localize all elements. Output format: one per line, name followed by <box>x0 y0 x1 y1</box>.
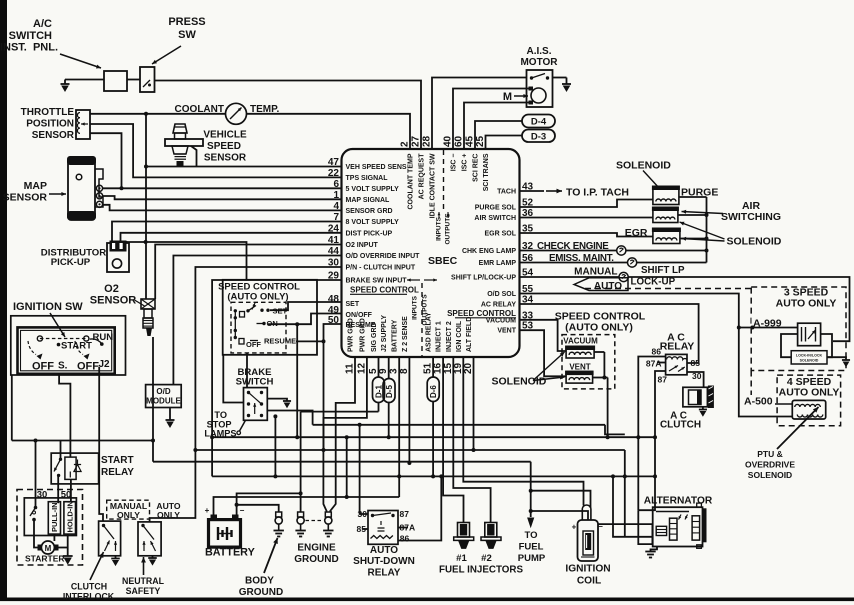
svg-text:DIST PICK-UP: DIST PICK-UP <box>346 230 393 237</box>
junction node B <box>120 186 124 190</box>
pin 47 VEH SPEED SENS <box>328 157 407 171</box>
SBEC lower INPUTS/OUTPUTS labels and arrow <box>407 278 437 325</box>
label COOLANT ... TEMP. <box>175 104 280 115</box>
wire: ASD 86 to bus <box>398 476 441 540</box>
wire: pin 25 SCI TRANS to D-3 <box>486 136 523 150</box>
starter motor M circle <box>38 541 59 554</box>
svg-text:OFF: OFF <box>246 340 261 349</box>
ground G4 (3-speed) <box>842 360 850 367</box>
wire: brake lamp branch down <box>273 414 277 476</box>
svg-text:SPEED: SPEED <box>207 141 241 152</box>
arrow TO I.P. TACH <box>546 189 562 194</box>
A/C relay K1 <box>666 354 687 374</box>
svg-text:A.I.S.: A.I.S. <box>526 46 551 57</box>
pin 3 BATTERY (bottom) <box>389 319 400 374</box>
wire: pin 45 SCI REC to D-4 <box>475 121 522 149</box>
pin 48 SET <box>328 294 360 308</box>
label BRAKE SWITCH <box>236 367 274 388</box>
lock-in/lock solenoid box <box>791 351 827 364</box>
svg-text:87: 87 <box>400 509 410 519</box>
wire: brake switch left to speed control box <box>223 355 243 403</box>
svg-text:ALT FIELD: ALT FIELD <box>466 317 473 352</box>
wire: vertical sensor-ground trunk <box>145 114 147 299</box>
wire: speed control OFF to brake switch <box>246 353 248 388</box>
svg-text:45: 45 <box>465 135 476 147</box>
svg-text:22: 22 <box>328 168 340 179</box>
leader arrow to A/C switch <box>60 54 101 69</box>
coolant temp sensor RT1 <box>226 103 247 124</box>
svg-text:STARTER: STARTER <box>25 554 65 564</box>
start relay K2 <box>51 453 98 484</box>
label VEHICLE SPEED SENSOR <box>203 130 247 164</box>
wire: A.I.S. switch to ground <box>553 77 567 79</box>
pin 53 VENT <box>497 321 533 335</box>
svg-text:48: 48 <box>328 294 340 305</box>
ground G11 (engine left) <box>295 531 305 537</box>
svg-text:OVERDRIVE: OVERDRIVE <box>745 460 795 470</box>
ignition coil T1 <box>578 505 599 561</box>
connector D-5 <box>383 379 395 403</box>
svg-text:41: 41 <box>328 235 340 246</box>
svg-text:8 VOLT SUPPLY: 8 VOLT SUPPLY <box>346 219 400 226</box>
wire: press switch to pin 27 (AC REQUEST) <box>155 81 422 150</box>
svg-text:28: 28 <box>422 135 433 147</box>
wire: pin 15 INJECT2 to injector 2 <box>453 357 490 523</box>
svg-text:#2: #2 <box>481 553 492 564</box>
svg-text:1: 1 <box>333 190 339 201</box>
svg-text:4: 4 <box>333 201 339 212</box>
pin 60 ISC + (top) <box>454 135 469 171</box>
wire: pin 9 J2 SUPPLY to bus <box>387 357 391 439</box>
svg-text:A/C: A/C <box>33 18 52 30</box>
svg-text:START: START <box>101 455 134 466</box>
pin 27 AC REQUEST (top) <box>411 135 426 199</box>
wire: start relay switch to pull-in coil <box>57 475 59 503</box>
wire: battery junction branch <box>345 437 349 499</box>
fuel injector 1 <box>454 523 474 549</box>
svg-text:LOCK-UP: LOCK-UP <box>631 277 676 288</box>
svg-text:60: 60 <box>454 135 465 147</box>
wire: pull-in to motor <box>53 534 55 541</box>
wire: branch to coil negative <box>529 489 591 508</box>
leader arrow to MAP sensor <box>49 192 66 196</box>
label AUTO ONLY <box>156 501 181 520</box>
wire: pin 28 to A.I.S. idle contact switch <box>432 78 527 150</box>
svg-text:COOLANT TEMP: COOLANT TEMP <box>408 153 415 209</box>
svg-text:AC RELAY: AC RELAY <box>481 302 516 309</box>
svg-text:PWR GRD: PWR GRD <box>359 318 366 352</box>
pin 51 ASD RELAY (bottom) <box>423 312 434 374</box>
wire: ON to pin 49 <box>268 314 342 325</box>
svg-text:SWITCH: SWITCH <box>9 30 52 42</box>
ground G1 (A/C switch line) <box>61 80 70 93</box>
junction dots solenoid rail <box>705 213 709 253</box>
svg-text:AUTO ONLY: AUTO ONLY <box>779 387 840 399</box>
svg-text:O/D: O/D <box>156 387 170 396</box>
wire: MAP bottom pin to pin 4 SENSOR GRD <box>103 205 342 211</box>
wire: pin 12 PWR GRD to engine ground <box>323 357 367 512</box>
purge solenoid L1 <box>652 186 680 205</box>
svg-text:27: 27 <box>411 135 422 147</box>
svg-text:20: 20 <box>463 362 474 374</box>
svg-text:SENSOR: SENSOR <box>32 130 75 141</box>
svg-text:FUEL: FUEL <box>519 542 544 553</box>
leader arrow to ignition switch <box>50 313 65 337</box>
svg-text:VEH SPEED SENS: VEH SPEED SENS <box>346 164 407 171</box>
svg-text:PRESS: PRESS <box>168 16 205 28</box>
wire: feed bus y=440.5 <box>12 439 155 443</box>
svg-text:THROTTLE: THROTTLE <box>21 107 75 118</box>
wire: lock solenoid left bracket <box>781 334 798 357</box>
SBEC top INPUTS/OUTPUTS rotated labels <box>436 212 452 245</box>
label PRESS SW <box>168 16 205 41</box>
svg-text:SOLENOID: SOLENOID <box>800 359 819 363</box>
svg-text:RESUME: RESUME <box>264 336 296 345</box>
label TO FUEL PUMP <box>518 530 546 564</box>
leader arrow to press switch <box>152 46 181 64</box>
label START RELAY <box>101 455 134 478</box>
wire: pin 19 IGN COIL to ignition coil <box>463 357 583 506</box>
A.I.S. motor assembly U2 <box>527 70 553 107</box>
svg-text:CHK ENG LAMP: CHK ENG LAMP <box>462 248 516 255</box>
svg-text:BATTERY: BATTERY <box>205 547 256 559</box>
pin 1 MAP SIGNAL <box>333 190 390 204</box>
pin 43 TACH <box>497 182 533 196</box>
connector D-4 <box>522 115 555 128</box>
pin 12 PWR GRD (bottom) <box>356 318 367 374</box>
wire: relay 30 to A/C clutch <box>687 372 704 387</box>
wire: pin 29 BRAKE SW INPUT run <box>210 280 341 476</box>
bus wire: y=437.2 <box>212 435 655 439</box>
label AUTO SHUT-DOWN RELAY <box>353 545 415 579</box>
svg-text:ASD RELAY: ASD RELAY <box>426 312 433 352</box>
leader to O2 sensor <box>135 300 145 306</box>
svg-text:25: 25 <box>475 135 486 147</box>
label ENGINE GROUND <box>294 543 338 566</box>
wire: start relay coil to hold-in coil <box>70 479 72 501</box>
leader: air switching label to solenoid <box>682 210 724 214</box>
wire: pin 20 ALT FIELD to bus <box>472 357 476 452</box>
label O2 SENSOR <box>90 283 137 307</box>
wire: speed control down to bus <box>295 322 299 437</box>
wire: MAP middle pin to pin 1 MAP SIGNAL <box>103 196 342 199</box>
wire: pin 33 VACUUM to vacuum solenoid <box>520 320 567 351</box>
wire: TPS top pin / coolant node <box>90 113 226 115</box>
wire: SET to pin 48 <box>270 302 342 310</box>
svg-text:GROUND: GROUND <box>239 587 283 598</box>
pin 7 8 VOLT SUPPLY <box>333 212 399 226</box>
wire: relay 86 feed <box>638 357 665 511</box>
dashed grouping line (auto only) <box>585 288 751 290</box>
svg-text:SCI REC: SCI REC <box>473 154 480 182</box>
svg-text:SENSOR: SENSOR <box>204 153 247 164</box>
svg-text:40: 40 <box>443 135 454 147</box>
pin 24 DIST PICK-UP <box>328 223 393 237</box>
svg-text:INJECT 1: INJECT 1 <box>436 321 443 352</box>
svg-text:85: 85 <box>691 358 701 368</box>
pin 22 TPS SIGNAL <box>328 168 388 182</box>
pin 4 SENSOR GRD <box>333 201 392 215</box>
svg-text:J2 SUPPLY: J2 SUPPLY <box>381 315 388 352</box>
ground G12 (engine right) <box>323 531 333 537</box>
pin 20 ALT FIELD (bottom) <box>463 317 474 374</box>
svg-text:HOLD-IN: HOLD-IN <box>66 501 75 532</box>
svg-text:−: − <box>240 506 245 515</box>
wire: TPS middle pin to pin 22 TPS SIGNAL <box>90 124 342 177</box>
svg-text:9: 9 <box>378 368 389 374</box>
wire: pin 56 EMR LAMP <box>520 262 707 264</box>
wire: O/D module to ground <box>169 408 171 421</box>
brake switch S3 <box>244 388 268 421</box>
speed control switch contacts <box>234 303 270 344</box>
PTU / overdrive solenoid L7 <box>792 400 825 419</box>
svg-text:50: 50 <box>61 490 72 501</box>
dashed box speed control solenoids <box>562 335 615 389</box>
wire: pin 55 O/D SOL to PTU solenoid <box>520 294 793 417</box>
svg-text:PURGE SOL: PURGE SOL <box>475 205 517 212</box>
label A.I.S. MOTOR <box>520 46 558 68</box>
emission maintenance lamp DS2 <box>628 258 637 267</box>
svg-text:AIR SWITCH: AIR SWITCH <box>474 215 516 222</box>
svg-text:87: 87 <box>658 375 668 385</box>
svg-text:#1: #1 <box>456 553 467 564</box>
wire: pin 34 AC RELAY to relay pin 85 <box>520 304 699 363</box>
speed control servo box (solid) <box>223 280 317 355</box>
wire: feed to 3-speed governor solenoid <box>737 326 798 330</box>
svg-text:VACUUM: VACUUM <box>486 317 516 324</box>
starter solenoid/motor M1 <box>24 498 76 536</box>
svg-text:MAP: MAP <box>24 180 47 192</box>
pin 45 SCI REC (top) <box>465 135 480 181</box>
label MAP SENSOR <box>3 180 48 204</box>
svg-text:BODY: BODY <box>245 576 274 587</box>
svg-text:ENGINE: ENGINE <box>297 543 336 554</box>
svg-text:SBEC: SBEC <box>428 255 458 267</box>
wire: MAP top pin to pin 6 (5 VOLT SUPPLY) <box>103 187 342 189</box>
auto shut-down relay K3 <box>368 511 398 545</box>
label A C CLUTCH <box>660 411 701 431</box>
svg-text:S.: S. <box>58 361 68 372</box>
svg-text:SENSOR GRD: SENSOR GRD <box>346 208 393 215</box>
label DISTRIBUTOR PICK-UP <box>41 248 106 268</box>
wire: pin 36 AIR SWITCH to solenoid <box>520 217 653 219</box>
pin 55 O/D SOL <box>487 284 533 298</box>
svg-text:INST. PNL.: INST. PNL. <box>0 42 58 54</box>
svg-text:PULL-IN: PULL-IN <box>50 502 59 532</box>
junction node C <box>144 165 148 169</box>
dashed box MANUAL ONLY <box>107 500 150 519</box>
shift/lock-up lamp DS3 <box>619 272 628 281</box>
wire: brake switch to stop lamps <box>237 420 246 434</box>
wire: pin 11 PWR GRD to engine ground <box>330 357 355 512</box>
connector D-3 <box>522 130 555 143</box>
svg-text:SOLENOID: SOLENOID <box>492 376 547 388</box>
throttle position sensor R1 <box>76 110 90 139</box>
svg-text:O2: O2 <box>104 283 119 295</box>
wire: pin 40 ISC- to motor <box>453 89 529 150</box>
pin 44 O/D OVERRIDE INPUT <box>328 246 420 260</box>
svg-text:7: 7 <box>333 212 339 223</box>
pin 11 PWR GRD (bottom) <box>345 318 356 374</box>
wire: sensor row to pin 47 VEH SPEED SENS <box>146 166 342 168</box>
svg-text:INJECT 2: INJECT 2 <box>446 321 453 352</box>
svg-text:PWR GRD: PWR GRD <box>348 318 355 352</box>
label PTU & OVERDRIVE SOLENOID <box>745 449 795 480</box>
label A-999 <box>752 317 782 330</box>
svg-text:MAP SIGNAL: MAP SIGNAL <box>346 197 391 204</box>
pin 2 COOLANT TEMP (top) <box>400 141 415 210</box>
svg-text:MANUAL: MANUAL <box>574 267 617 278</box>
svg-text:VACUUM: VACUUM <box>563 337 598 346</box>
label SPEED CONTROL (AUTO ONLY) left <box>218 282 300 303</box>
svg-text:SET: SET <box>346 301 360 308</box>
wire: pin 3 BATTERY down <box>397 357 401 497</box>
wire: alternator ground stub <box>651 547 658 552</box>
svg-text:INPUTS: INPUTS <box>436 216 443 241</box>
dashed box STARTER <box>17 490 83 566</box>
wire: ignition J2 terminal to clutch interlock <box>99 367 103 521</box>
bus wire: y=424.8 <box>313 423 625 435</box>
wire: coil negative side run <box>598 524 652 544</box>
svg-text:RELAY: RELAY <box>660 341 695 353</box>
pin 56 EMR LAMP <box>479 253 534 267</box>
wire: pin 8 Z2 SENSE to bus <box>407 357 411 465</box>
svg-text:+: + <box>572 523 577 532</box>
svg-text:TACH: TACH <box>497 189 516 196</box>
label TO STOP LAMPS <box>204 410 236 439</box>
wire: pin 51 ASD RELAY to bus <box>431 357 435 478</box>
wire: A/C switch to press switch <box>127 79 140 81</box>
label 4 SPEED AUTO ONLY <box>779 376 840 399</box>
pin 5 SIG GRD (bottom) <box>368 322 379 374</box>
svg-text:24: 24 <box>328 223 340 234</box>
svg-text:SOLENOID: SOLENOID <box>616 160 671 172</box>
O2 sensor U6 <box>141 299 155 336</box>
pin 25 SCI TRANS (top) <box>475 135 490 191</box>
pin 29 BRAKE SW INPUT <box>328 271 407 285</box>
svg-text:5 VOLT SUPPLY: 5 VOLT SUPPLY <box>346 186 400 193</box>
svg-text:ONLY: ONLY <box>117 510 140 520</box>
svg-text:PICK-UP: PICK-UP <box>51 257 91 268</box>
wire: pin 32 CHK ENG LAMP <box>520 250 707 252</box>
svg-text:(AUTO ONLY): (AUTO ONLY) <box>565 322 633 334</box>
wire: pin 44 O/D OVERRIDE to module <box>173 256 341 385</box>
wire: battery negative to body ground <box>235 491 303 514</box>
pin 36 AIR SWITCH <box>474 208 533 222</box>
pin 8 Z 2 SENSE (bottom) <box>399 316 410 374</box>
svg-text:SAFETY: SAFETY <box>126 586 161 596</box>
dashed box 4 SPEED AUTO ONLY <box>777 375 841 426</box>
leader: solenoid label to EGR solenoid <box>682 237 725 241</box>
svg-text:D-4: D-4 <box>531 117 547 128</box>
svg-text:TO: TO <box>524 530 537 541</box>
ground G7 (starter) <box>63 556 73 565</box>
wire: coolant to pin 2 COOLANT TEMP <box>247 114 411 149</box>
pin 19 IGN COIL (bottom) <box>453 320 464 374</box>
air switching solenoid L2 <box>652 207 679 223</box>
A/C switch S1 <box>104 71 127 91</box>
svg-text:GROUND: GROUND <box>294 554 338 565</box>
label IGNITION COIL <box>565 564 610 587</box>
svg-text:12: 12 <box>356 362 367 374</box>
svg-text:RELAY: RELAY <box>368 568 401 579</box>
svg-text:ISC +: ISC + <box>462 154 469 172</box>
svg-text:POSITION: POSITION <box>26 119 74 130</box>
svg-text:NEUTRAL: NEUTRAL <box>122 576 165 586</box>
svg-text:6: 6 <box>333 179 339 190</box>
neutral safety switch S6 <box>138 522 161 556</box>
ground G8 (clutch interlock) <box>111 556 120 566</box>
fuel injector 2 <box>481 523 501 549</box>
label A/C SWITCH INST. PNL. <box>0 18 58 54</box>
pin 34 AC RELAY <box>481 295 534 309</box>
leader: clutch interlock label to switch <box>90 552 104 580</box>
wire: pin 52 PURGE SOL to solenoid <box>520 200 653 208</box>
wire: pin 53 VENT to vent solenoid <box>520 330 567 376</box>
svg-text:TO I.P. TACH: TO I.P. TACH <box>566 187 629 199</box>
check engine lamp DS1 <box>617 246 626 255</box>
connector D-1 <box>373 377 385 403</box>
pin 9 J2 SUPPLY (bottom) <box>378 315 389 374</box>
leader: solenoid label to vacuum solenoid <box>533 352 565 381</box>
O/D module U7 <box>146 385 182 408</box>
svg-text:M: M <box>503 91 512 103</box>
scan border bar left <box>0 0 7 598</box>
junction node A <box>144 112 148 116</box>
wire: pin 43 TACH stub <box>520 190 545 192</box>
svg-text:TPS SIGNAL: TPS SIGNAL <box>346 175 389 182</box>
svg-text:D-5: D-5 <box>385 385 394 398</box>
press switch S2 <box>140 67 155 92</box>
svg-text:+: + <box>205 506 210 515</box>
label SPEED CONTROL (left header) <box>350 286 419 295</box>
wire: RESUME to pin 50 <box>296 324 342 343</box>
svg-text:INTERLOCK: INTERLOCK <box>63 592 115 602</box>
svg-text:IGN COIL: IGN COIL <box>456 320 463 352</box>
label A C RELAY <box>660 332 695 353</box>
pin 49 ON/OFF <box>328 305 373 319</box>
svg-text:ISC −: ISC − <box>451 154 458 172</box>
battery BT1 <box>209 515 241 548</box>
svg-text:CLUTCH: CLUTCH <box>71 582 107 592</box>
leader: solenoid label to air solenoid <box>680 222 725 239</box>
pin 40 ISC &#8722; (top) <box>443 135 458 171</box>
dashed line below 3-speed box <box>750 371 752 407</box>
vehicle speed sensor U3 <box>165 124 203 166</box>
svg-text:OFF: OFF <box>77 361 99 373</box>
svg-text:IDLE CONTACT SW: IDLE CONTACT SW <box>430 153 437 218</box>
bus wire: y=476.4 <box>212 474 655 478</box>
svg-text:2: 2 <box>400 141 411 147</box>
pin 15 INJECT 2 (bottom) <box>443 321 454 374</box>
svg-text:P/N - CLUTCH INPUT: P/N - CLUTCH INPUT <box>346 265 416 272</box>
wire: pin 41 O2 INPUT to O2 sensor <box>155 245 341 300</box>
wire: ASD 30 feed <box>360 425 368 514</box>
pin 32 CHK ENG LAMP <box>462 241 534 255</box>
svg-text:BRAKE SW INPUT: BRAKE SW INPUT <box>346 278 408 285</box>
wire: distributor third pin to sensor-ground trunk <box>127 241 247 281</box>
svg-text:VENT: VENT <box>569 362 590 371</box>
wire: VSS output to pin 47 row <box>191 146 197 167</box>
dashed box speed control switches <box>231 302 286 353</box>
connector D-6 <box>427 377 439 402</box>
svg-text:ALTERNATOR: ALTERNATOR <box>644 496 713 507</box>
label M with arrow <box>503 91 528 103</box>
svg-text:AUTO: AUTO <box>370 545 398 556</box>
svg-text:FUEL INJECTORS: FUEL INJECTORS <box>439 565 523 576</box>
svg-text:VEHICLE: VEHICLE <box>203 130 247 141</box>
svg-text:MODULE: MODULE <box>146 397 181 406</box>
